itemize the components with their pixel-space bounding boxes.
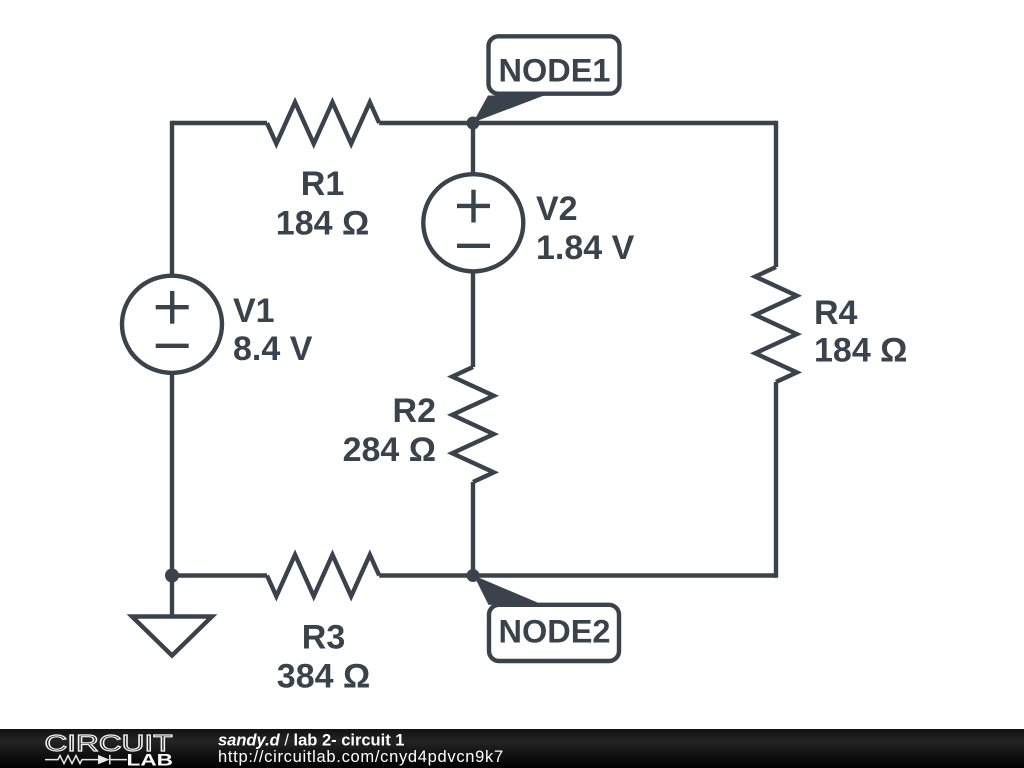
svg-text:V2: V2 (536, 190, 578, 228)
svg-text:1.84 V: 1.84 V (536, 229, 635, 267)
svg-text:R4: R4 (814, 294, 858, 332)
svg-text:R1: R1 (301, 165, 344, 203)
svg-text:LAB: LAB (127, 752, 174, 768)
svg-text:R3: R3 (302, 619, 345, 657)
svg-text:http://circuitlab.com/cnyd4pdv: http://circuitlab.com/cnyd4pdvcn9k7 (218, 748, 504, 766)
svg-text:sandy.d / lab 2- circuit 1: sandy.d / lab 2- circuit 1 (218, 732, 404, 750)
svg-text:NODE1: NODE1 (499, 53, 611, 89)
svg-text:R2: R2 (393, 392, 436, 430)
svg-text:284 Ω: 284 Ω (343, 431, 436, 469)
svg-text:8.4 V: 8.4 V (233, 330, 313, 368)
svg-text:NODE2: NODE2 (499, 614, 611, 650)
svg-text:384 Ω: 384 Ω (277, 658, 370, 696)
svg-text:184 Ω: 184 Ω (814, 332, 907, 370)
svg-text:V1: V1 (233, 292, 275, 330)
svg-text:184 Ω: 184 Ω (276, 205, 369, 243)
